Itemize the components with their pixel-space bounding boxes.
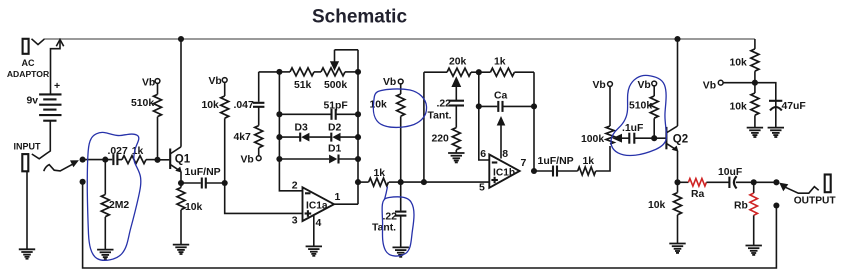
ground IC1a pin4: [306, 246, 322, 255]
battery B1 9v: [26, 80, 61, 121]
svg-text:10uF: 10uF: [718, 167, 742, 178]
svg-text:Rb: Rb: [734, 201, 748, 212]
resistor 10k lower right: [730, 83, 759, 128]
input tip arrow: [44, 160, 79, 171]
resistor 4k7: [234, 126, 263, 156]
svg-text:10k: 10k: [370, 100, 388, 111]
resistor 1k IC1b out: [578, 146, 610, 175]
svg-text:1: 1: [335, 191, 341, 203]
node IC1b output: [531, 168, 537, 174]
svg-text:6: 6: [480, 148, 486, 160]
annotation blue loop 10k mix: [373, 89, 426, 127]
svg-text:AC: AC: [22, 58, 35, 68]
ground .22 tant: [393, 247, 409, 256]
resistor 10k Q2 emitter: [648, 182, 682, 243]
svg-text:.047: .047: [234, 100, 254, 111]
feedback right rail: [355, 50, 361, 204]
svg-text:.1uF: .1uF: [622, 123, 643, 134]
svg-text:Ra: Ra: [691, 189, 705, 200]
svg-text:3: 3: [292, 214, 298, 226]
svg-text:220: 220: [432, 134, 450, 145]
Vb terminal 1: [142, 78, 160, 89]
node input A: [80, 157, 86, 163]
Vb terminal 4: [383, 77, 403, 88]
ground 10k right: [747, 128, 763, 137]
node input sleeve B: [80, 179, 86, 185]
capacitor 51pF: [279, 100, 358, 120]
capacitor .1uF: [622, 123, 654, 144]
AC adaptor plug J1: [7, 39, 50, 79]
node Q2 base: [651, 135, 657, 141]
svg-text:1k: 1k: [494, 57, 506, 68]
svg-text:.027: .027: [108, 146, 128, 157]
svg-text:Vb: Vb: [593, 80, 606, 91]
capacitor Ca: [479, 91, 537, 112]
capacitor 10uF: [706, 167, 753, 188]
svg-text:8: 8: [502, 148, 508, 160]
node output tip: [773, 179, 779, 185]
svg-text:4k7: 4k7: [234, 132, 252, 143]
node Rb top: [751, 179, 757, 185]
feedback left rail: [276, 69, 302, 191]
svg-text:7: 7: [521, 157, 527, 169]
wire bottom return: [83, 182, 777, 268]
annotation blue loop 510k Q2: [611, 75, 667, 155]
svg-text:100k: 100k: [581, 134, 604, 145]
svg-text:4: 4: [316, 217, 322, 229]
capacitor 47uF: [755, 83, 806, 128]
svg-text:1uF/NP: 1uF/NP: [185, 166, 221, 178]
op-amp IC1b: [479, 148, 527, 194]
capacitor 1uF/NP: [181, 166, 225, 189]
svg-text:10k: 10k: [185, 202, 203, 213]
svg-text:1uF/NP: 1uF/NP: [538, 155, 574, 167]
svg-text:2M2: 2M2: [109, 200, 129, 211]
svg-text:20k: 20k: [449, 57, 467, 68]
svg-text:500k: 500k: [324, 80, 347, 91]
ground Rb: [746, 246, 762, 255]
svg-text:2: 2: [292, 179, 298, 191]
diode D3: [279, 123, 331, 142]
resistor 1k input: [122, 146, 158, 164]
wire node to output node: [754, 181, 777, 183]
node 20k-1k junction: [476, 69, 482, 75]
wire battery plus to rail with arrow: [51, 40, 64, 95]
tone network right rail: [533, 72, 535, 171]
svg-text:1k: 1k: [374, 168, 386, 179]
svg-text:IC1b: IC1b: [493, 167, 515, 178]
ground 220: [448, 153, 464, 162]
resistor Rb red: [734, 182, 758, 245]
Vb terminal 5: [593, 80, 613, 91]
svg-text:Tant.: Tant.: [428, 111, 452, 122]
svg-text:Schematic: Schematic: [312, 6, 407, 27]
resistor 510k Q2 bias: [629, 86, 658, 138]
node mix: [398, 179, 404, 185]
node Q1 base: [154, 157, 160, 163]
wire node A to C1: [83, 159, 113, 161]
wire IC1a output: [334, 203, 358, 205]
wire to IC1a pin3: [225, 183, 303, 213]
svg-text:510k: 510k: [629, 101, 652, 112]
svg-text:5: 5: [479, 182, 485, 194]
ground input jack: [19, 249, 35, 258]
svg-text:Q2: Q2: [673, 134, 688, 146]
transistor Q1: [158, 36, 191, 183]
svg-text:10k: 10k: [648, 200, 666, 211]
svg-text:Vb: Vb: [638, 80, 651, 91]
tone network left rail: [423, 72, 425, 182]
resistor 1k tone: [479, 57, 534, 77]
ground Q2 10k: [669, 244, 685, 253]
resistor 10k IC1a bias: [202, 82, 229, 183]
ground 47uF: [768, 128, 784, 137]
Vb terminal 2: [209, 76, 228, 87]
svg-text:ADAPTOR: ADAPTOR: [7, 69, 50, 79]
diode D1: [279, 143, 358, 163]
svg-text:D2: D2: [328, 123, 342, 134]
node output sleeve: [773, 202, 779, 208]
svg-text:10k: 10k: [730, 102, 748, 113]
svg-text:.22: .22: [383, 212, 398, 223]
capacitor .22 Tant lower: [372, 182, 406, 247]
svg-text:IC1a: IC1a: [306, 201, 328, 212]
potentiometer 20k: [424, 57, 479, 101]
capacitor 1uF/NP out: [534, 155, 578, 176]
wire battery minus to input jack switch: [32, 121, 51, 159]
svg-text:51pF: 51pF: [324, 100, 348, 111]
output tip arrow: [779, 183, 819, 194]
INPUT jack J2: [14, 141, 42, 249]
potentiometer 100k: [581, 86, 629, 145]
ground 2M2: [97, 250, 113, 259]
svg-text:D1: D1: [328, 143, 342, 154]
wire pin6 vertical: [476, 72, 490, 160]
resistor 2M2: [101, 157, 129, 250]
svg-text:Vb: Vb: [383, 77, 396, 88]
top supply rail: [45, 38, 755, 40]
svg-text:Q1: Q1: [175, 153, 191, 165]
node bias junction: [222, 180, 228, 186]
svg-text:Vb: Vb: [703, 81, 716, 92]
svg-text:47uF: 47uF: [782, 101, 806, 112]
resistor 10k upper right: [730, 49, 759, 83]
annotation blue loop input network: [87, 132, 141, 260]
switch contact at AC adaptor: [32, 39, 45, 45]
svg-text:Tant.: Tant.: [372, 223, 396, 234]
resistor 510k Q1 bias: [131, 83, 162, 159]
resistor 10k at mix node: [370, 84, 405, 182]
svg-text:.22: .22: [437, 99, 452, 110]
ground Q1 10k: [173, 245, 189, 254]
svg-text:Ca: Ca: [494, 91, 508, 102]
pin8 arrow: [497, 116, 506, 159]
node Vb divider: [752, 80, 758, 86]
OUTPUT jack J3: [794, 175, 837, 207]
capacitor .047: [234, 72, 280, 126]
op-amp IC1a: [292, 179, 341, 246]
svg-text:Vb: Vb: [209, 76, 222, 87]
svg-text:10k: 10k: [202, 100, 220, 111]
svg-text:Vb: Vb: [241, 155, 254, 166]
annotation blue loop .22 tant: [382, 187, 414, 257]
node Q2 emitter: [674, 179, 680, 185]
resistor 10k Q1 emitter: [177, 183, 203, 245]
svg-text:OUTPUT: OUTPUT: [794, 196, 837, 207]
top right rail corner: [754, 39, 756, 49]
diode D2: [328, 123, 358, 142]
transistor Q2: [654, 36, 688, 182]
svg-text:D3: D3: [295, 123, 309, 134]
Vb terminal 3: [241, 155, 262, 166]
resistor 1k IC1a out: [358, 168, 401, 186]
svg-text:510k: 510k: [131, 98, 154, 109]
node Q1 emitter: [178, 180, 184, 186]
svg-text:INPUT: INPUT: [14, 141, 42, 151]
Vb terminal 6: [638, 80, 657, 91]
potentiometer 500k: [321, 50, 358, 91]
svg-text:Vb: Vb: [142, 78, 155, 89]
resistor Ra red: [678, 179, 707, 201]
svg-text:1k: 1k: [583, 156, 595, 167]
wire 1k row to pin5: [401, 179, 490, 185]
svg-text:9v: 9v: [26, 96, 38, 107]
capacitor .22 Tant upper: [428, 99, 465, 128]
svg-text:51k: 51k: [294, 80, 312, 91]
capacitor C1 .027: [108, 146, 128, 165]
resistor 51k: [279, 68, 321, 91]
Vb terminal 7 source: [703, 80, 755, 91]
svg-text:+: +: [54, 80, 60, 92]
svg-text:10k: 10k: [730, 58, 748, 69]
resistor 220: [432, 128, 461, 153]
